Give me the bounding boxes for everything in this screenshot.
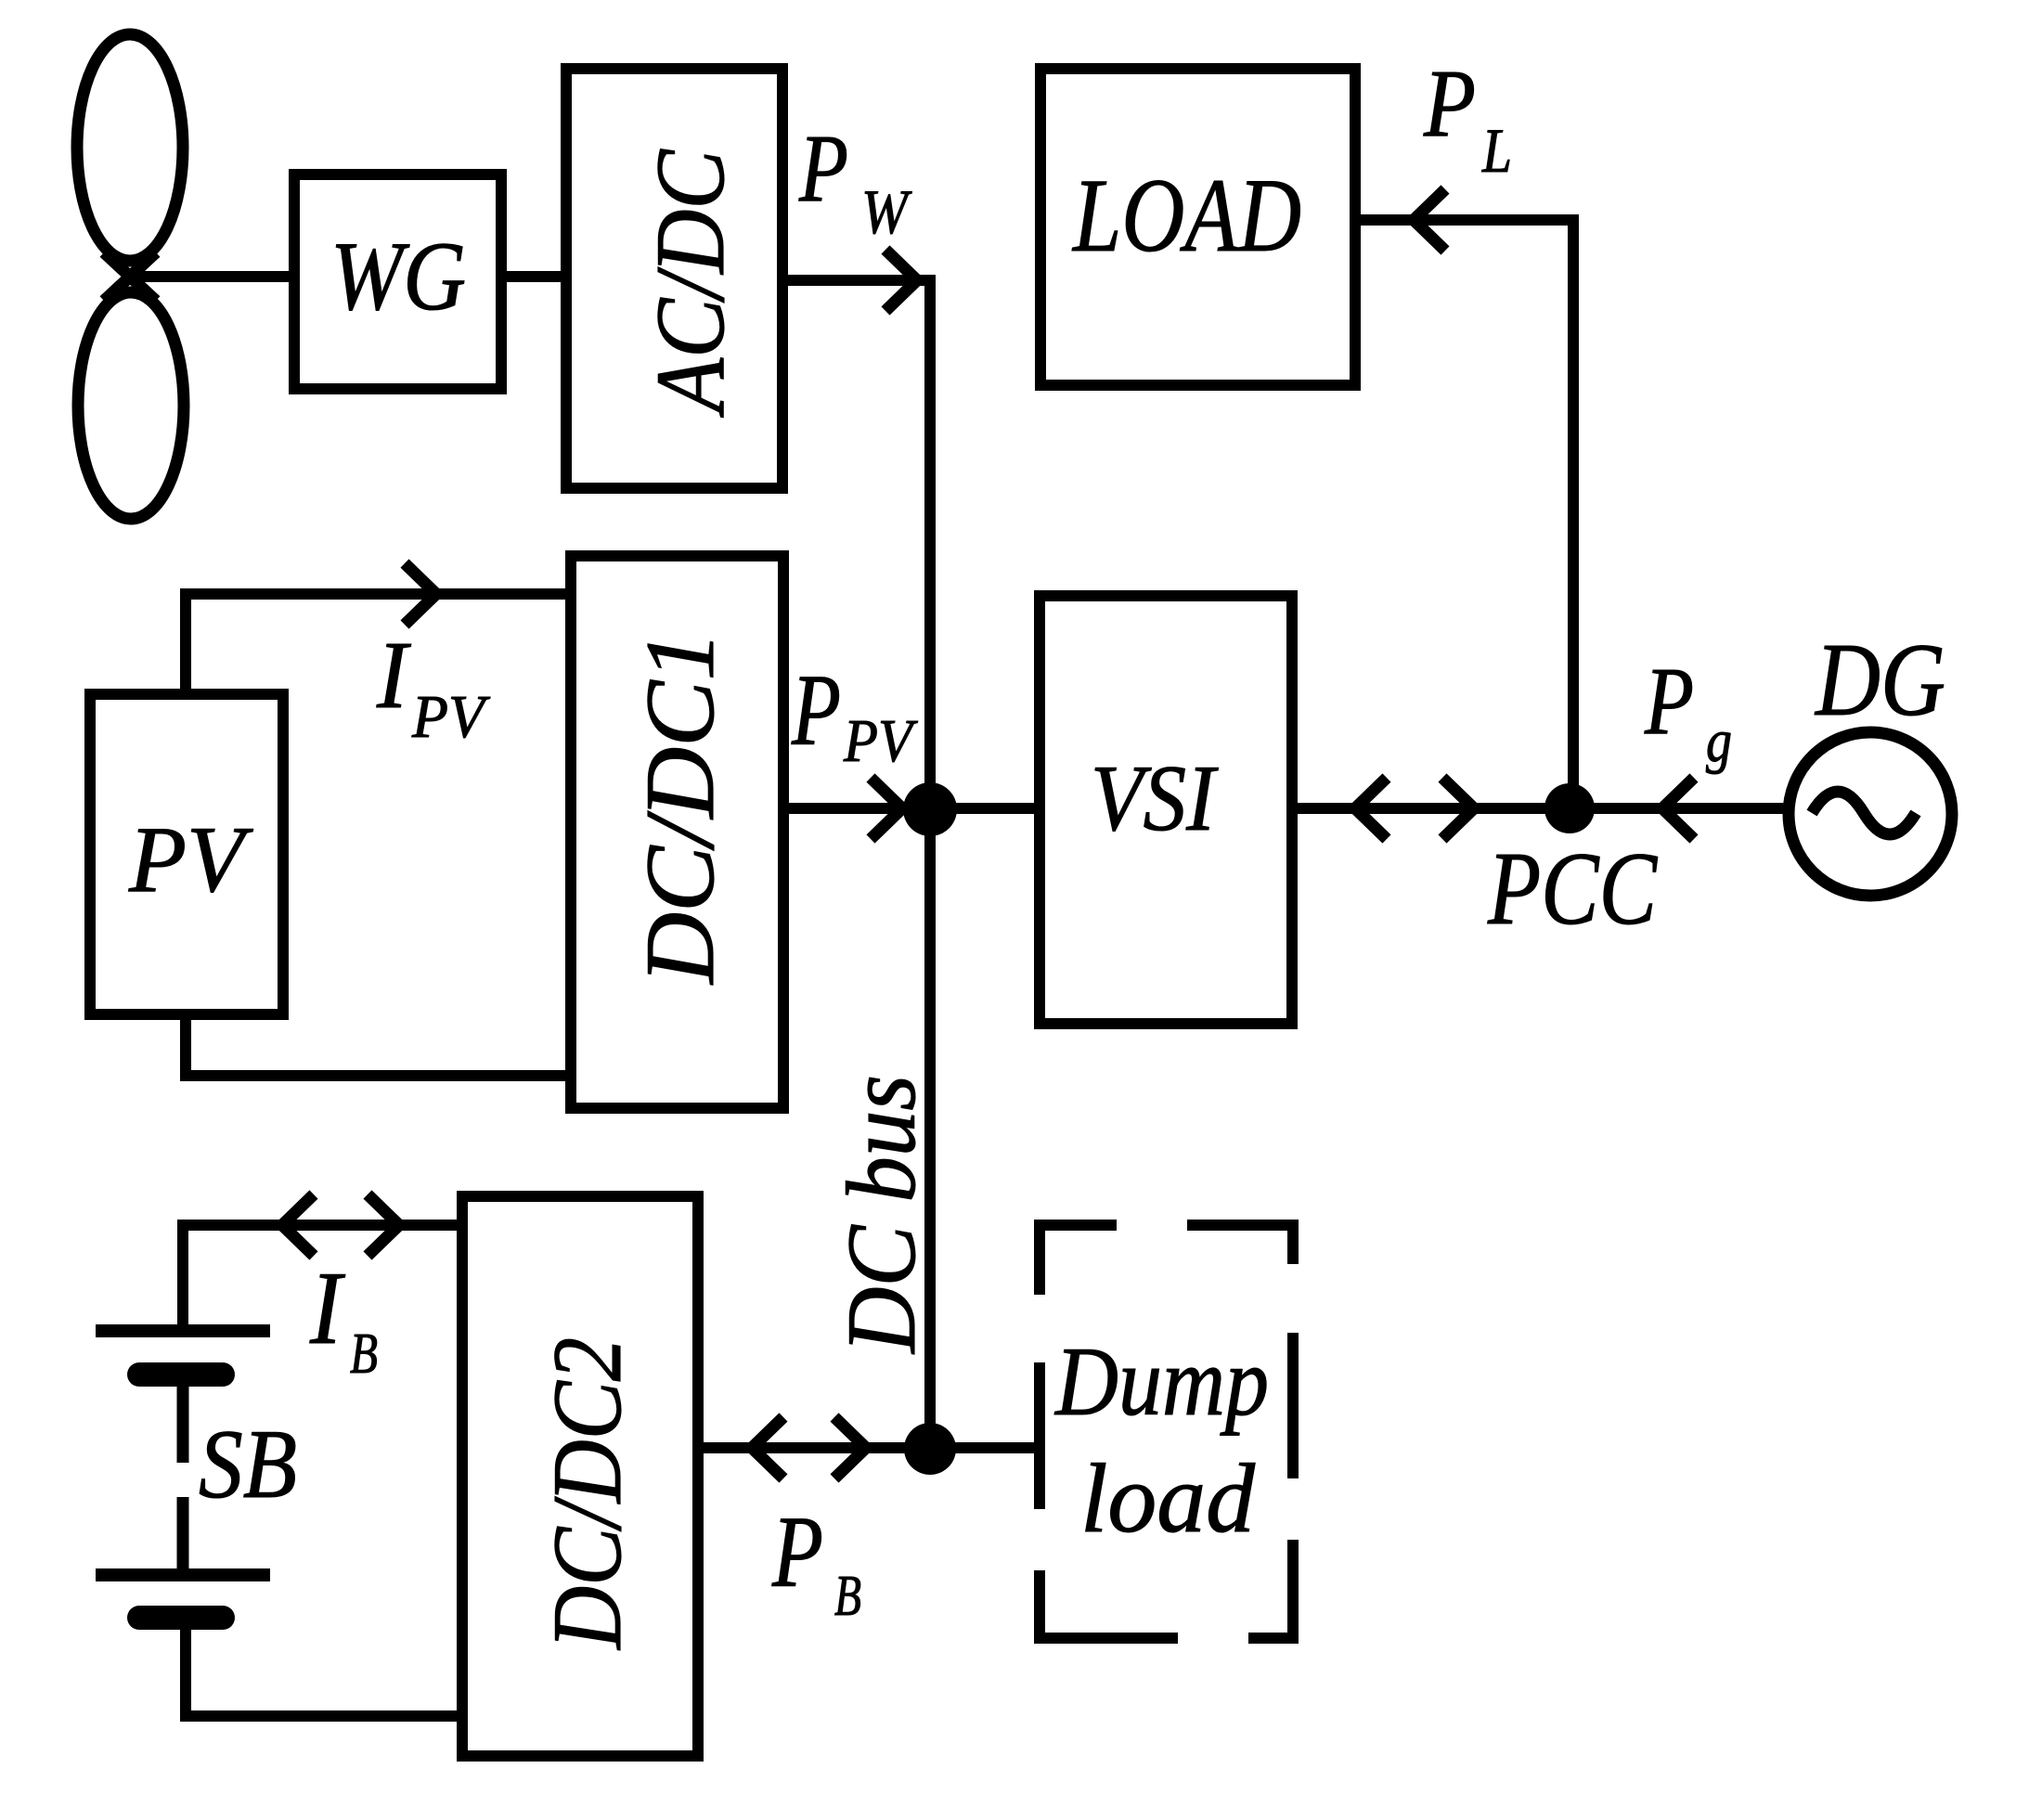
wire Ipv: PV top to DC/DC1 [186, 594, 571, 694]
battery SB plate long bottom [96, 1568, 270, 1581]
wire node to Dump load [930, 1442, 1037, 1453]
wind turbine blade bottom [78, 292, 184, 519]
svg-text:I: I [309, 1251, 345, 1366]
svg-text:DC/DC1: DC/DC1 [626, 631, 734, 986]
box AC/DC converter [566, 69, 782, 488]
svg-text:SB: SB [199, 1410, 297, 1518]
label DG [1814, 623, 1945, 738]
svg-text:PV: PV [128, 807, 254, 912]
label PV [128, 807, 254, 912]
label SB [199, 1410, 297, 1518]
wind turbine blade top [77, 34, 183, 261]
svg-text:Dump: Dump [1053, 1327, 1269, 1436]
svg-text:L: L [1481, 115, 1512, 186]
label P_L [1423, 50, 1512, 186]
arrow Ipv right [405, 563, 436, 625]
node bottom junction [904, 1423, 956, 1475]
wire DC bus vertical [924, 275, 936, 1448]
svg-text:P: P [1423, 50, 1476, 157]
node PCC [1544, 783, 1595, 833]
svg-text:PV: PV [843, 707, 918, 775]
arrow Ib right [368, 1194, 399, 1256]
svg-text:P: P [1644, 648, 1694, 755]
label DC/DC1 [626, 631, 734, 986]
box WG [294, 174, 501, 389]
box LOAD [1040, 69, 1355, 385]
svg-text:P: P [791, 653, 841, 767]
wire Ppv: DC/DC1 to bus node [789, 803, 930, 814]
wire shaft WG [124, 271, 294, 282]
label I_PV [376, 622, 490, 751]
label VSI [1091, 746, 1219, 851]
svg-text:AC/DC: AC/DC [636, 148, 744, 418]
wire PL: LOAD to PCC corner [1361, 220, 1573, 808]
source DG circle [1789, 732, 1952, 896]
arrow Ib left [282, 1194, 314, 1256]
arrow Ppv right [871, 778, 902, 839]
wire VSI to PCC [1292, 803, 1570, 814]
svg-text:DC/DC2: DC/DC2 [533, 1337, 641, 1651]
svg-text:load: load [1080, 1444, 1256, 1553]
svg-text:LOAD: LOAD [1071, 158, 1301, 274]
battery SB connector stub upper [177, 1387, 189, 1463]
label P_PV [791, 653, 918, 775]
svg-text:g: g [1706, 707, 1732, 775]
wire bus to VSI [930, 803, 1040, 814]
battery SB plate long top [96, 1324, 270, 1337]
wire Pb: DC/DC2 to bus node [698, 1442, 930, 1453]
label I_B [309, 1251, 378, 1386]
node DC bus junction [903, 782, 957, 836]
label WG [330, 222, 466, 330]
label P_W [798, 115, 912, 247]
svg-text:P: P [771, 1495, 823, 1608]
arrow Pw right [885, 250, 917, 311]
arrow bidir right [1442, 778, 1474, 839]
svg-text:PV: PV [411, 683, 490, 751]
label DC/DC2 [533, 1337, 641, 1651]
wire Pw: AC/DC to DC bus corner [788, 275, 930, 286]
wire WG to AC/DC [507, 271, 566, 282]
label DC bus [827, 1075, 936, 1355]
svg-text:B: B [834, 1565, 861, 1628]
label AC/DC [636, 148, 744, 418]
svg-text:P: P [798, 115, 848, 222]
svg-text:W: W [861, 176, 912, 247]
label PCC [1487, 832, 1658, 947]
battery SB plate short top [139, 1362, 223, 1387]
svg-text:B: B [350, 1323, 378, 1386]
battery SB plate short bottom [139, 1606, 223, 1630]
arrow Pb left [752, 1417, 783, 1478]
svg-text:VSI: VSI [1091, 746, 1219, 851]
arrow Pg left [1662, 778, 1694, 839]
box VSI inverter [1040, 596, 1292, 1024]
svg-text:I: I [376, 622, 411, 729]
svg-text:WG: WG [330, 222, 466, 330]
wire battery top to DC/DC2 [183, 1225, 462, 1331]
arrow bidir left [1355, 778, 1387, 839]
wire PV bottom to DC/DC1 [186, 1014, 571, 1076]
label Dump load [1053, 1327, 1269, 1553]
label LOAD [1071, 158, 1301, 274]
svg-text:DG: DG [1814, 623, 1945, 738]
arrow Pb right [834, 1417, 866, 1478]
battery SB connector stub lower [177, 1497, 189, 1568]
DG sine wave [1812, 792, 1916, 834]
box PV [90, 694, 283, 1014]
arrow PL left [1414, 189, 1445, 251]
label P_g [1644, 648, 1732, 775]
svg-text:DC bus: DC bus [827, 1075, 936, 1355]
wire PCC to DG [1570, 803, 1790, 814]
box DC/DC1 converter [571, 556, 783, 1108]
wire battery bottom to DC/DC2 [186, 1623, 462, 1716]
wind turbine hub cross [104, 252, 156, 301]
box Dump load dashed [1034, 1220, 1299, 1644]
label P_B [771, 1495, 861, 1628]
svg-text:PCC: PCC [1487, 832, 1658, 947]
box DC/DC2 converter [462, 1196, 698, 1756]
